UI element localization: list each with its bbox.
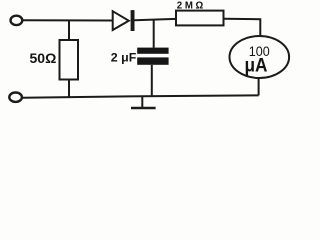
svg-text:50Ω: 50Ω	[30, 50, 57, 66]
diode D1 cathode bar	[131, 10, 135, 31]
resistor R 50ohm box	[60, 40, 79, 80]
capacitor C1 top plate	[137, 48, 168, 54]
terminal top-left	[11, 16, 23, 25]
svg-text:2 M Ω: 2 M Ω	[177, 0, 204, 12]
ground stub	[141, 96, 143, 107]
bottom rail wire	[23, 95, 259, 97]
wire node down to capacitor	[153, 20, 155, 48]
wire 2M resistor to meter corner	[224, 19, 261, 38]
terminal bottom-left	[9, 93, 22, 102]
wire resistor bottom to bottom rail	[68, 80, 70, 98]
capacitor C1 bottom plate	[137, 57, 168, 64]
wire capacitor to bottom rail	[151, 65, 153, 96]
wire diode to 2M resistor	[135, 19, 177, 20]
wire meter bottom down	[258, 78, 260, 96]
diode D1 triangle	[113, 11, 129, 30]
wire top-left to diode	[23, 19, 113, 21]
ground bar	[131, 107, 156, 110]
resistor 2M box	[176, 11, 224, 26]
wire junction down to 50 ohm resistor	[68, 20, 70, 40]
svg-text:2 μF: 2 μF	[111, 50, 137, 64]
svg-text:μA: μA	[245, 54, 268, 76]
meter M1 body	[229, 36, 289, 78]
